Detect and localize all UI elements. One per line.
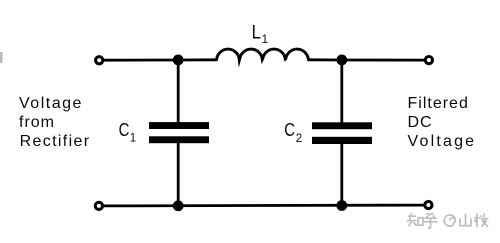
junction bottom of C2 [336,200,347,211]
svg-text:C: C [284,119,295,140]
annotation: output voltage label [408,95,477,150]
山 [460,214,471,226]
annotation: input voltage label [19,95,90,150]
svg-text:L: L [252,22,261,43]
枝 [474,213,489,227]
label C1 [119,119,137,144]
svg-text:C: C [119,119,130,140]
wire C2 lower lead [340,144,343,206]
wire bottom rail (input terminal to output terminal) [103,204,424,208]
capacitor C1 plates [149,122,209,143]
知 [407,213,423,226]
svg-text:Rectifier: Rectifier [20,133,91,150]
svg-text:from: from [19,114,55,131]
capacitor C2 plates [312,122,372,144]
terminal input top [96,57,103,64]
乎 [424,213,438,228]
wire top-right segment (node B to output terminal) [342,59,424,62]
scan artifact left edge [0,52,3,63]
watermark "知乎 @山枝" (drawn strokes, pale gray) [407,213,489,228]
wire C2 upper lead [340,60,343,123]
svg-text:Voltage: Voltage [19,95,83,112]
junction bottom of C1 [173,200,184,211]
svg-text:2: 2 [296,133,302,145]
svg-text:Voltage: Voltage [408,133,477,150]
terminal output top [425,57,432,64]
wire top-right segment (inductor L1 right lead to node B) [309,58,343,61]
inductor L1 (4 loops) [217,49,309,68]
@ [444,215,455,226]
label L1 [252,22,268,46]
terminal input bottom [95,202,102,209]
label C2 [284,119,302,145]
svg-text:1: 1 [262,34,268,46]
terminal output bottom [425,201,432,208]
svg-text:1: 1 [130,133,136,145]
wire C1 upper lead [177,60,180,123]
svg-text:DC: DC [408,114,433,131]
junction node A (top of C1) [173,55,184,66]
wire top-middle segment (node A to inductor L1 left lead) [178,58,217,61]
wire C1 lower lead [177,143,180,206]
junction node B (top of C2) [336,55,347,66]
svg-text:Filtered: Filtered [408,95,469,112]
wire top-left segment (input terminal to node A) [103,59,178,62]
